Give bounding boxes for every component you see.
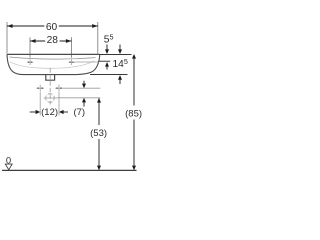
dimension 60 arrow right [92, 24, 98, 28]
svg-text:(12): (12) [41, 107, 58, 118]
dimension 7 up arrow [82, 98, 86, 103]
dimension 53 down arrow [97, 166, 101, 171]
tap hole cross right below basin [55, 85, 63, 92]
dimension 28 extension line right [71, 37, 73, 58]
svg-text:(85): (85) [125, 109, 142, 120]
dimension 60 extension line left [6, 22, 8, 54]
dimension 14.5 up arrow [118, 75, 122, 80]
tap hole cross left on basin [27, 59, 33, 65]
tap level projection line [63, 87, 101, 89]
dimension 53 line [98, 98, 100, 125]
dimension 28 label [45, 35, 59, 46]
drain centerline dashed [49, 68, 51, 104]
drain cross horizontal [44, 97, 57, 99]
rim top extension line to right [100, 53, 132, 55]
svg-text:28: 28 [47, 35, 59, 46]
svg-text:(53): (53) [90, 128, 107, 139]
dimension 85 down arrow [132, 166, 136, 171]
svg-text:(7): (7) [73, 107, 85, 118]
tap hole cross right on basin [69, 59, 75, 65]
dimension 5.5 up arrow [105, 62, 109, 67]
datum triangle [5, 164, 12, 170]
drain circle dashed [46, 94, 55, 103]
dimension 53 up arrow [97, 98, 101, 103]
dimension 28 line [30, 40, 72, 42]
dimension 85 up arrow [132, 54, 136, 59]
dimension 7 down arrow [83, 81, 85, 86]
dimension 60 line [7, 25, 98, 27]
dimension 60 label [44, 22, 58, 33]
dimension 12 extension line right [58, 92, 60, 116]
dimension 14.5 down arrow [119, 45, 121, 53]
washbasin outline [7, 54, 100, 74]
drain tab under basin [46, 75, 55, 81]
tap hole cross left below basin [36, 85, 44, 92]
svg-text:60: 60 [46, 22, 58, 33]
dimension 60 arrow left [7, 24, 13, 28]
dimension 5.5 down arrow [106, 45, 108, 53]
basin bottom extension line right [90, 74, 128, 76]
washbasin inner bowl line [10, 61, 94, 69]
dimension 60 extension line right [97, 22, 99, 54]
dimension 12 extension line left [39, 92, 41, 116]
dimension 28 arrow right [66, 39, 72, 43]
dimension 85 line [133, 55, 135, 106]
washbasin inner rim line [10, 57, 96, 59]
tap level extension line right [75, 61, 99, 63]
dimension 28 arrow left [30, 39, 36, 43]
dimension 12 right arrow [59, 110, 64, 114]
floor line [2, 169, 137, 171]
svg-text:0: 0 [6, 155, 11, 166]
washbasin top edge [7, 53, 100, 55]
drain level projection line [56, 97, 100, 99]
dimension 28 extension line left [29, 37, 31, 58]
dimension 12 left arrow [30, 111, 36, 113]
